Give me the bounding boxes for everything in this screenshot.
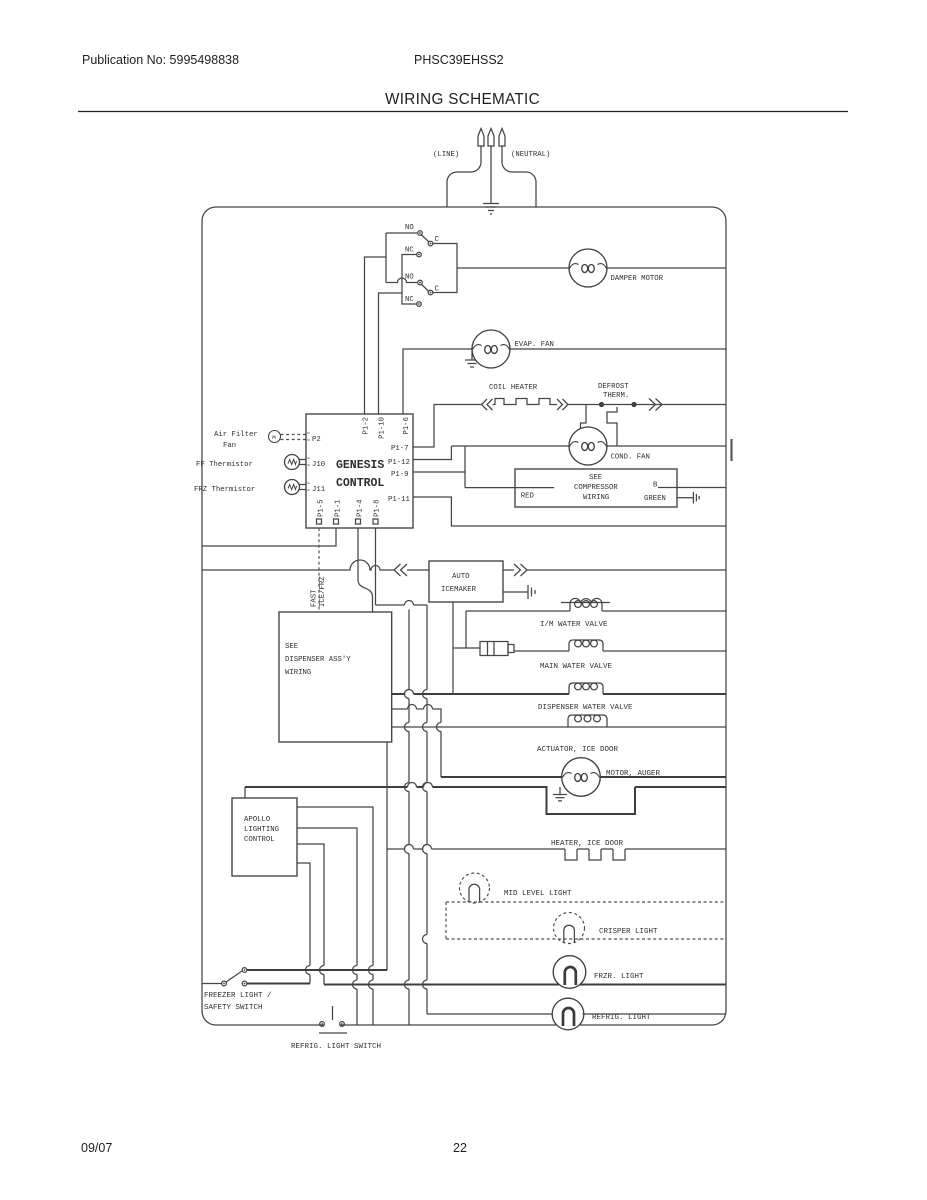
pin square P1-1 <box>334 519 339 524</box>
svg-text:EVAP. FAN: EVAP. FAN <box>515 341 554 349</box>
compressor wiring box <box>515 469 677 507</box>
refrig light switch S4 contacts <box>320 1022 325 1027</box>
wire auger to right rail <box>600 776 726 778</box>
quick connector chevrons right of defrost <box>649 399 662 411</box>
quick connector chevrons left of coil heater <box>482 399 493 410</box>
defrost thermostat terminal dots <box>599 402 604 407</box>
wire to connector <box>453 647 480 649</box>
ground symbol below plug <box>483 204 499 215</box>
svg-text:M: M <box>272 434 276 441</box>
wire P1-4 down with jog to bus <box>358 528 373 597</box>
pin square P1-8 <box>373 519 378 524</box>
apollo lighting control box U2 <box>232 798 297 876</box>
dispenser assy box <box>279 612 392 742</box>
hop on auger feed at actuator line <box>437 723 442 732</box>
wires thermistor to J10 <box>300 460 307 465</box>
svg-text:P1-1: P1-1 <box>335 499 343 517</box>
air filter fan motor dashed <box>269 431 281 443</box>
svg-text:RED: RED <box>521 492 535 500</box>
wire B green ground lead <box>658 487 726 489</box>
wire P1-5 dashed fast ice <box>318 528 320 612</box>
wire P1-10 riser <box>379 293 403 414</box>
svg-text:GREEN: GREEN <box>644 495 666 503</box>
wire P1-2 riser to switch bank <box>365 257 387 414</box>
mid level light LP1 dashed <box>460 873 490 903</box>
svg-text:CONTROL: CONTROL <box>336 477 384 490</box>
heater ice door element bumps <box>565 849 625 860</box>
outer enclosure box <box>202 207 726 1025</box>
wires thermistor to J11 <box>300 485 307 490</box>
svg-text:(LINE): (LINE) <box>433 151 459 159</box>
wire main valve to right rail <box>603 650 726 652</box>
refrig light feed from VC <box>427 1013 554 1015</box>
svg-text:LIGHTING: LIGHTING <box>244 826 279 834</box>
svg-text:P1-5: P1-5 <box>318 499 326 517</box>
dashed pair to P2 <box>281 434 307 436</box>
frzr light line dark <box>247 984 726 985</box>
hop VB on dispenser line <box>405 690 414 695</box>
svg-text:ACTUATOR, ICE DOOR: ACTUATOR, ICE DOOR <box>537 746 619 754</box>
svg-text:REFRIG. LIGHT SWITCH: REFRIG. LIGHT SWITCH <box>291 1043 381 1051</box>
svg-text:NC: NC <box>405 296 414 304</box>
wire defrost bracket to cond fan right wire <box>616 433 618 446</box>
defrost thermostat body bracket <box>607 407 617 433</box>
svg-text:COMPRESSOR: COMPRESSOR <box>574 484 618 492</box>
dispenser water valve solenoid L3 <box>569 683 603 694</box>
svg-text:WIRING SCHEMATIC: WIRING SCHEMATIC <box>385 91 540 108</box>
wire NO2 feed with hop <box>386 278 417 283</box>
sideways ground at compressor <box>693 492 699 503</box>
svg-text:B: B <box>653 482 658 490</box>
relay switch 2 C contact <box>428 290 433 295</box>
wire line-side from plug to box top <box>447 146 481 207</box>
heater ice door line <box>387 848 726 850</box>
svg-text:FRZR. LIGHT: FRZR. LIGHT <box>594 973 644 981</box>
svg-text:C: C <box>435 236 440 244</box>
svg-text:DISPENSER WATER VALVE: DISPENSER WATER VALVE <box>538 704 633 712</box>
apollo output 1 <box>297 807 373 1025</box>
main water valve solenoid L2 <box>569 640 603 651</box>
wire P1-12 to compressor RED <box>413 446 451 460</box>
svg-text:ICE/FRZ: ICE/FRZ <box>319 576 327 607</box>
freezer switch bottom contact <box>242 981 247 986</box>
svg-text:SEE: SEE <box>589 474 602 482</box>
svg-text:J10: J10 <box>312 461 325 469</box>
chevrons into icemaker <box>394 564 407 576</box>
quick connector chevrons right of coil heater <box>557 399 568 410</box>
damper motor M1 <box>569 249 607 287</box>
FF thermistor RT1 <box>285 455 300 470</box>
svg-text:P2: P2 <box>312 436 321 444</box>
bus VC vertical with hops <box>426 605 428 1014</box>
wire vd continues to dispenser line <box>452 648 454 694</box>
svg-text:P1-12: P1-12 <box>388 459 410 467</box>
svg-text:Fan: Fan <box>223 442 236 450</box>
wire to NO contact switch1 <box>386 232 417 234</box>
svg-text:FRZ Thermistor: FRZ Thermistor <box>194 486 255 494</box>
wire C1-C2 to damper feed <box>433 244 457 293</box>
relay switch 1 C contact <box>428 241 433 246</box>
im water valve solenoid L1 <box>561 598 610 611</box>
apollo output 3 <box>297 844 324 985</box>
svg-text:DISPENSER ASS'Y: DISPENSER ASS'Y <box>285 656 351 664</box>
wire chevron to icemaker <box>407 569 429 571</box>
crisper light LP2 dashed <box>554 913 585 944</box>
svg-text:SEE: SEE <box>285 643 298 651</box>
apollo output 4 <box>297 863 310 984</box>
header line H1 with hops <box>202 560 394 570</box>
wire cond fan left feed <box>451 445 569 447</box>
wire neutral-side from plug to box top <box>502 146 536 207</box>
VC hops <box>423 690 427 990</box>
cond fan motor M3 <box>569 427 607 465</box>
freezer switch top wire with hops <box>247 969 387 971</box>
vertical from dispenser box corner down <box>386 742 388 970</box>
svg-text:J11: J11 <box>312 486 326 494</box>
plug prong right (neutral) <box>499 129 505 147</box>
plug prong left (line) <box>478 129 484 147</box>
svg-text:P1-11: P1-11 <box>388 496 411 504</box>
coil heater element <box>493 399 558 405</box>
svg-text:P1-6: P1-6 <box>403 417 411 435</box>
apollo output 2 <box>297 828 357 1025</box>
relay switch 1 NC contact <box>417 252 422 257</box>
svg-text:THERM.: THERM. <box>603 392 629 400</box>
bus VA vertical <box>372 597 374 612</box>
refrig switch underline <box>319 1032 347 1034</box>
auger line hops painted <box>408 783 433 788</box>
freezer light feed from left rail <box>202 983 222 985</box>
wire NC1-NC2 link <box>402 255 417 305</box>
refrig switch actuator mark <box>332 1006 334 1020</box>
wire P1-11 lower rail <box>413 497 726 526</box>
refrig lamp glyph <box>563 1008 574 1026</box>
plug prong middle <box>488 129 494 147</box>
auger motor M4 <box>562 758 601 797</box>
wire P1-9 to cond fan <box>413 446 465 488</box>
sideways ground at icemaker <box>528 585 535 599</box>
svg-text:HEATER, ICE DOOR: HEATER, ICE DOOR <box>551 840 624 848</box>
crisper lamp glyph <box>564 925 575 942</box>
svg-text:I/M WATER VALVE: I/M WATER VALVE <box>540 621 608 629</box>
svg-text:P1-2: P1-2 <box>363 417 371 435</box>
wire defrost to cond fan branch <box>581 405 587 429</box>
auto icemaker box <box>429 561 503 602</box>
hops on wire 357 <box>353 966 358 990</box>
svg-text:P1-4: P1-4 <box>357 499 365 517</box>
genesis control box U1 <box>306 414 413 528</box>
svg-text:SAFETY SWITCH: SAFETY SWITCH <box>204 1004 263 1012</box>
wire damper motor to right rail <box>607 267 726 269</box>
wire icemaker row to right rail <box>527 569 726 571</box>
ground at evap fan <box>465 349 479 367</box>
svg-text:CRISPER LIGHT: CRISPER LIGHT <box>599 928 658 936</box>
ground at auger motor <box>553 787 567 801</box>
wire defrost to right rail <box>636 404 726 406</box>
pin square P1-5 <box>317 519 322 524</box>
svg-text:CONTROL: CONTROL <box>244 836 275 844</box>
relay switch 2 NC contact <box>417 302 422 307</box>
svg-text:P1-10: P1-10 <box>379 417 387 439</box>
wire im valve to right rail <box>602 610 726 612</box>
dashed mid level light feed <box>446 902 726 939</box>
wire RED into compressor box <box>465 487 554 489</box>
wire connector to main valve <box>514 650 569 652</box>
svg-text:22: 22 <box>453 1141 467 1155</box>
svg-text:P1-8: P1-8 <box>374 499 382 517</box>
freezer switch blade <box>226 971 242 982</box>
svg-text:NO: NO <box>405 224 414 232</box>
VB hops <box>405 690 409 990</box>
relay switch 2 NO contact <box>418 280 423 285</box>
relay switch 1 blade <box>421 235 429 243</box>
wire P1-8 down <box>375 528 377 605</box>
wire VC to auger motor feed <box>392 709 441 777</box>
wire apollo top to auger line <box>244 787 246 798</box>
refrig light LP4 <box>552 998 584 1030</box>
wire P1-7 riser to coil heater <box>413 405 482 448</box>
heater line hops <box>405 845 432 850</box>
svg-text:GENESIS: GENESIS <box>336 459 384 472</box>
svg-text:AUTO: AUTO <box>452 573 470 581</box>
svg-text:09/07: 09/07 <box>81 1141 112 1155</box>
freezer safety switch S3 pivot <box>222 981 227 986</box>
frzr lamp glyph <box>565 967 576 985</box>
svg-text:FREEZER LIGHT /: FREEZER LIGHT / <box>204 992 272 1000</box>
svg-text:DEFROST: DEFROST <box>598 383 629 391</box>
svg-text:ICEMAKER: ICEMAKER <box>441 586 477 594</box>
svg-text:MAIN WATER VALVE: MAIN WATER VALVE <box>540 663 613 671</box>
wire P1-6 riser to evap fan <box>403 349 472 414</box>
svg-text:NC: NC <box>405 247 414 255</box>
chevrons out of icemaker <box>514 564 527 576</box>
im water valve line left <box>466 610 570 612</box>
evap fan motor M2 <box>472 330 510 368</box>
svg-text:Air Filter: Air Filter <box>214 431 258 439</box>
title underline <box>78 111 848 113</box>
inline connector body <box>480 642 514 656</box>
wire damper motor feed <box>457 267 569 269</box>
pin square P1-4 <box>356 519 361 524</box>
svg-text:P1-7: P1-7 <box>391 445 409 453</box>
wire P1-1 to left rail <box>202 528 336 546</box>
bus VB vertical with hops <box>408 610 410 1026</box>
svg-text:WIRING: WIRING <box>285 669 311 677</box>
svg-text:COIL HEATER: COIL HEATER <box>489 384 538 392</box>
wire im valve branch vertical <box>465 611 467 648</box>
relay switch 1 NO contact <box>418 231 423 236</box>
svg-text:MID LEVEL LIGHT: MID LEVEL LIGHT <box>504 890 572 898</box>
svg-text:FAST: FAST <box>311 589 319 607</box>
wire earth pin down <box>490 146 492 203</box>
svg-text:Publication No: 5995498838: Publication No: 5995498838 <box>82 53 239 67</box>
wire cond fan to right rail <box>607 445 726 447</box>
svg-text:(NEUTRAL): (NEUTRAL) <box>511 151 550 159</box>
dispenser water valve line dark <box>392 693 726 695</box>
wire NO1 feed vertical <box>385 233 387 283</box>
wire between defrost dots <box>602 404 635 406</box>
actuator ice door line <box>392 726 726 728</box>
svg-text:APOLLO: APOLLO <box>244 816 271 824</box>
svg-text:P1-9: P1-9 <box>391 471 409 479</box>
svg-text:WIRING: WIRING <box>583 494 609 502</box>
wire icemaker right exit <box>503 569 514 571</box>
wire icemaker right to ground <box>503 591 528 593</box>
motor auger dark line <box>245 787 726 814</box>
FRZ thermistor RT2 <box>285 480 300 495</box>
svg-text:COND. FAN: COND. FAN <box>611 454 650 462</box>
svg-text:DAMPER MOTOR: DAMPER MOTOR <box>611 275 664 283</box>
mid level lamp glyph <box>469 884 480 901</box>
svg-text:PHSC39EHSS2: PHSC39EHSS2 <box>414 53 504 67</box>
svg-text:NO: NO <box>405 274 414 282</box>
actuator solenoid L4 <box>568 715 607 727</box>
wire evap fan to right rail <box>510 348 726 350</box>
wire H2 P1-8 to icemaker pin <box>376 604 428 606</box>
svg-text:FF Thermistor: FF Thermistor <box>196 461 253 469</box>
relay switch 2 blade <box>421 284 429 292</box>
frzr light LP3 <box>553 956 586 989</box>
wire icemaker bottom pin down <box>452 602 454 648</box>
scan artifact tick right edge <box>730 439 732 461</box>
freezer switch top contact <box>242 968 247 973</box>
wire refrig light to right rail <box>583 1013 727 1015</box>
svg-text:REFRIG. LIGHT: REFRIG. LIGHT <box>592 1014 651 1022</box>
